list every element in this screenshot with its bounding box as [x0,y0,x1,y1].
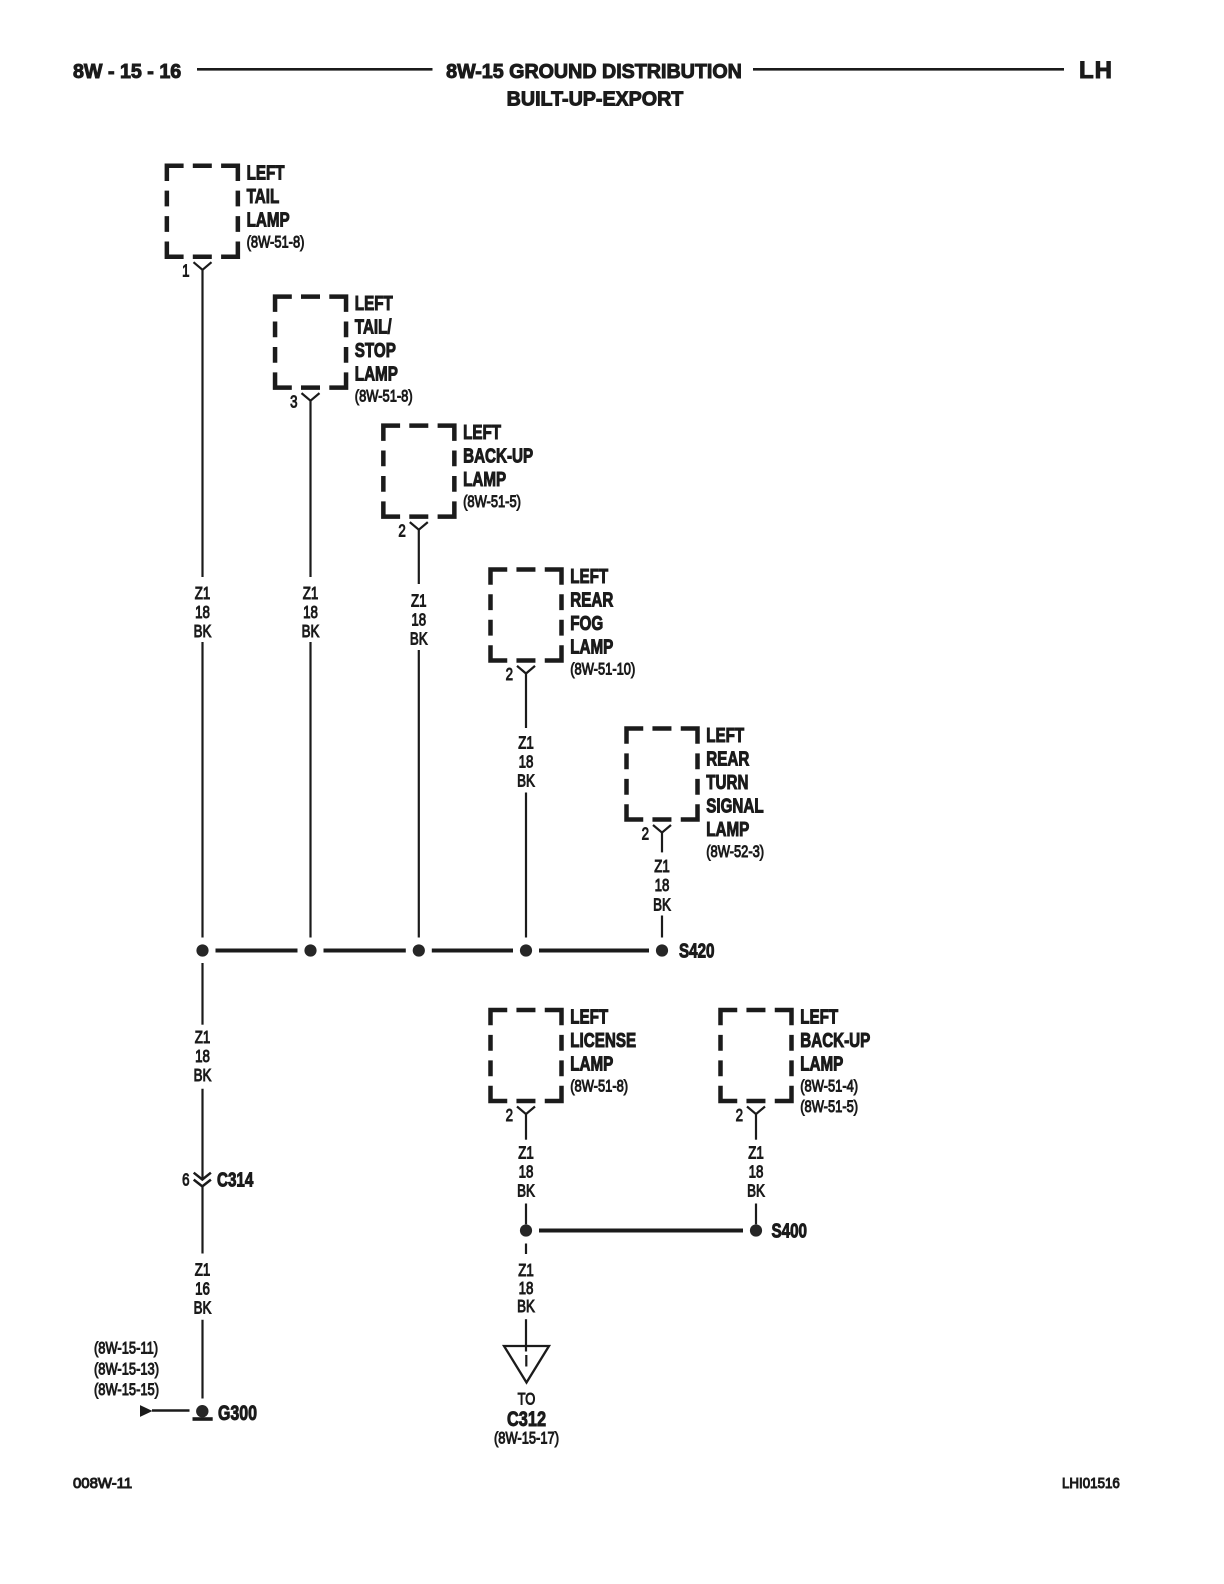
svg-text:BK: BK [302,622,320,641]
svg-text:18: 18 [519,1279,534,1298]
svg-text:(8W-51-8): (8W-51-8) [570,1077,628,1096]
connector box LEFT BACK-UP LAMP [381,423,457,519]
ground symbol G300 [196,1405,208,1417]
svg-text:8W - 15 - 16: 8W - 15 - 16 [73,61,181,83]
svg-text:LAMP: LAMP [463,468,506,491]
svg-text:1: 1 [182,262,189,281]
junction dot S420 at tail/stop lamp wire [304,944,316,956]
svg-text:LEFT: LEFT [355,292,393,315]
svg-text:Z1: Z1 [303,584,319,603]
svg-text:Z1: Z1 [654,857,670,876]
svg-text:LAMP: LAMP [247,208,290,231]
svg-text:2: 2 [398,522,405,541]
svg-text:LHI01516: LHI01516 [1062,1474,1120,1491]
svg-text:Z1: Z1 [195,1261,211,1280]
svg-text:Z1: Z1 [518,1261,534,1280]
junction dot S420 at rear fog lamp wire [520,944,532,956]
wire Z1 18 BK from LEFT REAR FOG LAMP pin 2 to S420 [525,674,527,729]
svg-text:(8W-15-13): (8W-15-13) [94,1360,159,1379]
svg-text:BK: BK [194,1066,212,1085]
connector symbol at LEFT REAR TURN SIGNAL LAMP pin 2 [653,825,671,833]
svg-text:18: 18 [519,753,534,772]
svg-text:18: 18 [411,611,426,630]
svg-text:TO: TO [518,1390,536,1409]
junction dot S420 at tail lamp wire [196,944,208,956]
svg-text:008W-11: 008W-11 [73,1476,132,1492]
svg-text:(8W-52-3): (8W-52-3) [706,842,764,861]
svg-text:BK: BK [747,1182,765,1201]
svg-text:BK: BK [517,772,535,791]
junction dot S400 at license lamp wire [520,1224,532,1236]
svg-text:REAR: REAR [570,588,613,611]
svg-text:LEFT: LEFT [463,421,501,444]
splice S420 bus wire [216,949,298,953]
wire Z1 18 BK from LEFT BACK-UP LAMP pin 2 to S420 [418,530,420,584]
svg-text:Z1: Z1 [748,1144,764,1163]
svg-text:(8W-15-11): (8W-15-11) [94,1339,158,1358]
svg-text:(8W-15-17): (8W-15-17) [494,1429,559,1448]
connector symbol at LEFT BACK-UP LAMP pin 2 [410,522,428,530]
connector symbol at LEFT BACK-UP LAMP pin 2 [747,1107,765,1115]
svg-text:BACK-UP: BACK-UP [800,1029,870,1052]
wire Z1 18 BK from S400 to C312 [525,1244,527,1255]
connector box LEFT BACK-UP LAMP (export) [718,1008,794,1104]
svg-text:18: 18 [195,1047,210,1066]
svg-text:BK: BK [410,630,428,649]
svg-text:3: 3 [290,393,297,412]
svg-text:C314: C314 [217,1168,253,1191]
svg-text:BK: BK [517,1297,535,1316]
svg-text:Z1: Z1 [411,592,427,611]
svg-text:STOP: STOP [355,339,396,362]
wire Z1 18 BK from LEFT TAIL LAMP pin 1 to S420 [201,270,203,577]
svg-text:(8W-51-5): (8W-51-5) [463,493,521,512]
svg-text:LEFT: LEFT [706,724,744,747]
svg-text:G300: G300 [218,1401,257,1425]
svg-text:LAMP: LAMP [570,635,613,658]
svg-text:2: 2 [642,825,649,844]
svg-text:18: 18 [655,876,670,895]
svg-text:Z1: Z1 [518,734,534,753]
connector symbol at LEFT REAR FOG LAMP pin 2 [517,666,535,674]
svg-text:BK: BK [517,1182,535,1201]
svg-text:LEFT: LEFT [800,1006,838,1029]
svg-text:8W-15 GROUND DISTRIBUTION: 8W-15 GROUND DISTRIBUTION [446,61,742,83]
off-page connector symbol to C312 [504,1346,549,1383]
svg-text:Z1: Z1 [195,584,211,603]
svg-text:SIGNAL: SIGNAL [706,795,764,818]
svg-text:LEFT: LEFT [570,565,608,588]
wire from arrow to G300 [152,1409,190,1412]
svg-text:TAIL/: TAIL/ [355,316,392,339]
svg-text:2: 2 [506,666,513,685]
svg-text:S400: S400 [772,1219,808,1242]
svg-text:BUILT-UP-EXPORT: BUILT-UP-EXPORT [507,88,684,110]
svg-text:LAMP: LAMP [706,818,749,841]
svg-text:(8W-51-10): (8W-51-10) [570,660,635,679]
connector box LEFT TAIL/STOP LAMP [273,294,349,390]
svg-text:16: 16 [195,1280,210,1299]
svg-text:(8W-51-4): (8W-51-4) [800,1077,858,1096]
svg-text:LEFT: LEFT [570,1006,608,1029]
wire Z1 18 BK from LEFT TAIL/STOP LAMP pin 3 to S420 [309,401,311,577]
svg-text:BK: BK [653,896,671,915]
svg-text:(8W-15-15): (8W-15-15) [94,1381,159,1400]
junction dot S400 at back-up lamp wire [750,1224,762,1236]
header rule left [197,68,433,71]
wire Z1 18 BK from LEFT REAR TURN SIGNAL LAMP pin 2 to S420 [661,833,663,853]
svg-text:LAMP: LAMP [355,363,398,386]
svg-text:18: 18 [749,1163,764,1182]
connector box LEFT TAIL LAMP [165,164,241,260]
svg-text:TAIL: TAIL [247,185,280,208]
svg-text:LEFT: LEFT [247,161,285,184]
ground G300 feed arrow [140,1405,153,1417]
svg-text:(8W-51-8): (8W-51-8) [247,233,305,252]
svg-text:TURN: TURN [706,771,748,794]
connector symbol at LEFT TAIL LAMP pin 1 [194,262,212,270]
svg-text:FOG: FOG [570,612,603,635]
svg-text:2: 2 [506,1106,513,1125]
svg-text:LAMP: LAMP [800,1053,843,1076]
wire Z1 16 BK from C314 to G300 [201,1187,203,1254]
svg-text:REAR: REAR [706,748,749,771]
junction dot S420 at turn signal wire [656,944,668,956]
svg-text:LH: LH [1079,57,1113,84]
svg-text:Z1: Z1 [518,1144,534,1163]
connector box LEFT LICENSE LAMP [488,1008,564,1104]
wire Z1 18 BK from S420 to C314 [201,963,203,1025]
svg-text:6: 6 [182,1171,189,1190]
connector box LEFT REAR FOG LAMP [488,567,564,663]
connector symbol at LEFT LICENSE LAMP pin 2 [517,1107,535,1115]
connector C314 (inline, double chevron) [194,1173,211,1187]
svg-text:LICENSE: LICENSE [570,1029,636,1052]
svg-text:(8W-51-8): (8W-51-8) [355,387,413,406]
wire Z1 18 BK from LEFT LICENSE LAMP pin 2 to S400 [525,1114,527,1140]
svg-text:18: 18 [303,603,318,622]
svg-text:LAMP: LAMP [570,1053,613,1076]
connector symbol at LEFT TAIL/STOP LAMP pin 3 [302,393,320,401]
svg-text:BACK-UP: BACK-UP [463,445,533,468]
splice S400 bus wire [539,1229,743,1233]
header rule right [753,68,1064,71]
wire Z1 18 BK from LEFT BACK-UP LAMP pin 2 to S400 [755,1114,757,1140]
svg-text:18: 18 [519,1163,534,1182]
svg-text:2: 2 [736,1106,743,1125]
svg-text:18: 18 [195,603,210,622]
svg-text:BK: BK [194,622,212,641]
svg-text:Z1: Z1 [195,1028,211,1047]
svg-text:BK: BK [194,1299,212,1318]
svg-text:(8W-51-5): (8W-51-5) [800,1097,858,1116]
connector box LEFT REAR TURN SIGNAL LAMP [624,726,700,822]
svg-text:S420: S420 [679,939,715,962]
junction dot S420 at back-up lamp wire [413,944,425,956]
